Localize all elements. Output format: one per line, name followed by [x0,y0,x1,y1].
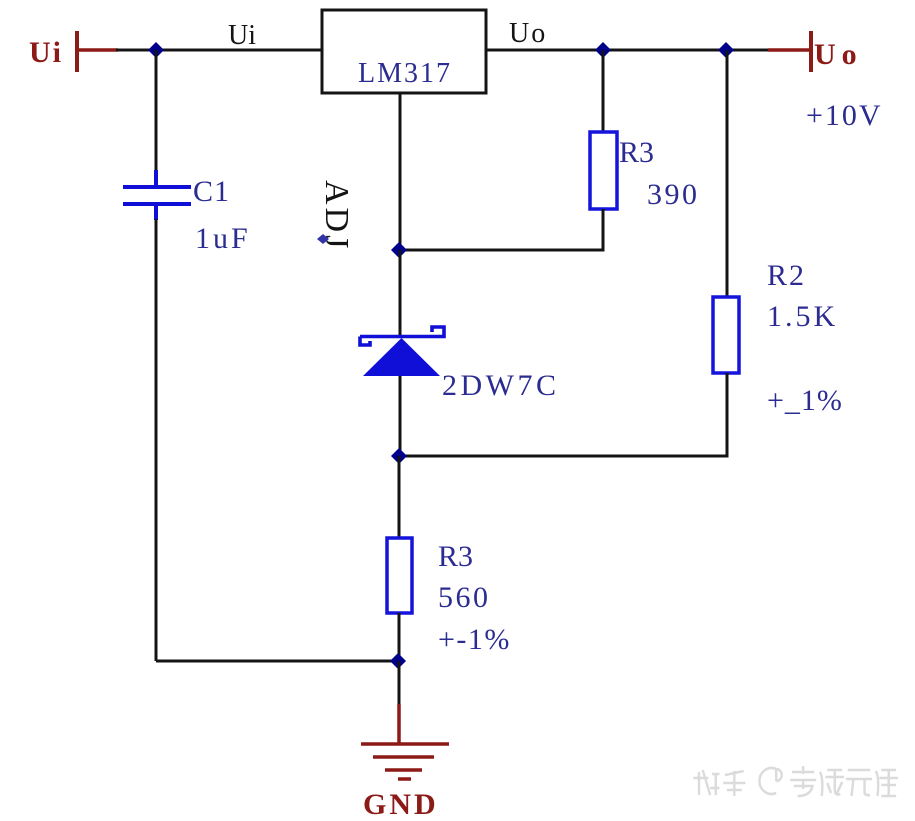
junction ground node [390,653,406,669]
svg-text:1uF: 1uF [195,222,251,255]
wire R3 bottom to ADJ node [399,209,603,250]
wire R2 bottom to lower node [399,373,727,456]
resistor R3 (390) [590,132,617,209]
svg-text:+-1%: +-1% [438,623,511,656]
wire R3b bottom lead [398,613,401,661]
wire input to LM317 [116,49,322,52]
svg-text:1.5K: 1.5K [767,300,838,333]
svg-text:Ui: Ui [228,20,256,51]
svg-text:+10V: +10V [806,99,883,132]
wire bottom rail [156,660,399,663]
wire LM317 output [486,49,770,52]
watermark 知乎 @学海无涯 [693,766,898,796]
svg-text:R3: R3 [438,540,473,573]
svg-text:C1: C1 [193,175,230,208]
svg-text:+_1%: +_1% [767,384,843,417]
svg-text:Uo: Uo [814,38,863,71]
junction output at R2 [718,42,734,58]
wire ADJ node to zener [399,250,402,337]
zener diode D1 2DW7C [360,327,444,376]
wire zener to lower node [399,376,402,456]
svg-text:R2: R2 [767,259,806,292]
wire lower node to R3b [398,456,401,538]
svg-text:560: 560 [438,581,491,614]
wire ADJ pin [399,93,402,250]
svg-text:R3: R3 [619,136,654,169]
svg-text:Ui: Ui [29,36,63,69]
resistor R3 (560) [387,538,412,613]
junction output at R3 [595,42,611,58]
wire R3 top lead [602,50,605,132]
svg-text:390: 390 [647,178,700,211]
svg-text:GND: GND [363,788,439,821]
ground [361,704,449,779]
capacitor C1 [123,170,191,220]
junction ADJ node [391,242,407,258]
svg-text:LM317: LM317 [358,58,452,89]
svg-text:2DW7C: 2DW7C [442,369,560,402]
pin label ADJ [317,180,355,251]
svg-text:Uo: Uo [509,18,547,49]
wire left rail upper [155,50,158,187]
junction left rail [148,42,164,58]
regulator U1 LM317 [322,10,486,93]
wire left rail lower [155,219,158,661]
junction lower node [391,448,407,464]
wire R2 top lead [726,50,729,297]
resistor R2 (1.5K) [713,297,739,373]
output terminal Uo [768,31,811,72]
input terminal Ui [77,31,118,72]
wire ground stem [398,661,401,706]
